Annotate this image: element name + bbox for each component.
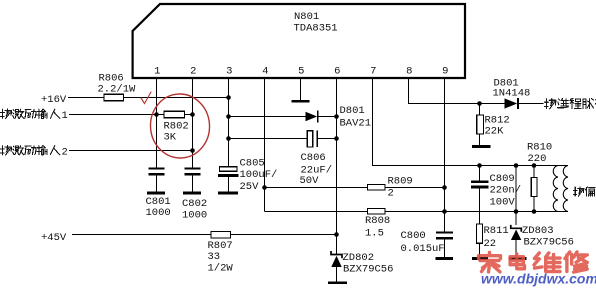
svg-text:1N4148: 1N4148 <box>493 88 531 100</box>
svg-text:220: 220 <box>528 153 547 165</box>
resistor R809 body <box>368 184 386 190</box>
svg-text:50V: 50V <box>300 175 320 187</box>
label 场偏 <box>574 187 584 196</box>
svg-text:ZD802: ZD802 <box>343 252 375 264</box>
svg-text:D801: D801 <box>340 105 365 117</box>
ground under C800 <box>436 257 454 260</box>
capacitor C809 <box>479 166 481 181</box>
ground under C805 <box>218 192 238 195</box>
svg-text:ZD803: ZD803 <box>522 225 554 237</box>
ground under C801 <box>147 192 165 195</box>
svg-text:C800: C800 <box>401 230 426 242</box>
svg-text:2: 2 <box>190 66 196 78</box>
diode D801 BAV21 <box>306 112 318 122</box>
svg-text:100uF/: 100uF/ <box>240 169 278 181</box>
wire +16V rail <box>68 97 229 99</box>
wire pin2 vertical <box>192 79 194 168</box>
ground under ZD802 <box>328 281 347 284</box>
svg-text:2: 2 <box>62 147 68 159</box>
svg-text:0.015uF: 0.015uF <box>401 243 445 255</box>
svg-text:BAV21: BAV21 <box>340 118 372 130</box>
svg-text:1: 1 <box>154 66 160 78</box>
resistor R811 <box>477 224 483 243</box>
resistor R807 body <box>211 232 231 238</box>
wire ZD803 vertical from top line <box>515 166 517 225</box>
red ellipse annotation around R802 <box>148 92 211 160</box>
wire R802 leads <box>157 114 165 116</box>
resistor R812 <box>479 104 481 116</box>
ground under C802 <box>183 192 201 195</box>
svg-text:100V: 100V <box>490 197 516 209</box>
svg-text:1/2W: 1/2W <box>208 263 234 275</box>
svg-text:7: 7 <box>370 66 376 78</box>
svg-text:www.dbjdwx.com: www.dbjdwx.com <box>481 271 596 287</box>
svg-text:C806: C806 <box>301 152 326 164</box>
capacitor C805 (electrolytic) <box>220 167 238 172</box>
svg-text:1: 1 <box>62 110 68 122</box>
svg-text:2: 2 <box>388 188 394 200</box>
ground under R812 <box>472 145 491 148</box>
svg-text:8: 8 <box>406 66 412 78</box>
svg-text:6: 6 <box>334 66 340 78</box>
svg-text:5: 5 <box>298 66 304 78</box>
wire pin5 vertical <box>300 79 302 100</box>
red tick mark near R806 <box>141 92 151 104</box>
svg-text:1000: 1000 <box>182 210 207 222</box>
svg-text:TDA8351: TDA8351 <box>294 23 338 35</box>
inductor 场偏 deflection coil <box>563 166 568 212</box>
svg-text:22K: 22K <box>485 126 505 138</box>
wire pin7 east line <box>373 165 569 167</box>
svg-text:BZX79C56: BZX79C56 <box>343 264 393 276</box>
svg-text:33: 33 <box>208 251 221 263</box>
zener diode ZD802 <box>331 251 342 258</box>
wire input1 to pin1 <box>69 114 157 116</box>
svg-text:N801: N801 <box>294 11 319 23</box>
svg-text:25V: 25V <box>240 181 260 193</box>
junction dots <box>154 112 159 117</box>
wire pin8 vertical <box>408 79 410 104</box>
svg-text:R811: R811 <box>484 225 509 237</box>
svg-text:4: 4 <box>262 66 268 78</box>
zener diode ZD803 <box>511 225 522 232</box>
wire pin8 east line <box>409 103 505 105</box>
svg-text:R810: R810 <box>527 142 552 154</box>
capacitor C802 <box>185 167 201 169</box>
ground at pin5 <box>292 100 310 103</box>
svg-text:1000: 1000 <box>146 207 171 219</box>
svg-text:C802: C802 <box>182 198 207 210</box>
ground under R811 <box>472 257 488 260</box>
node 场激励输入1 label <box>1 109 12 118</box>
svg-text:3K: 3K <box>164 132 177 144</box>
wire input2 to pin2 <box>69 150 193 152</box>
svg-text:1.5: 1.5 <box>365 228 384 240</box>
wire pin7 vertical <box>372 79 374 166</box>
resistor R810 <box>533 166 535 178</box>
wire +45V rail <box>72 234 337 236</box>
node 场逆程脉冲 label <box>545 99 556 109</box>
wire R809 line <box>265 187 368 189</box>
capacitor C801 <box>149 167 165 169</box>
svg-text:C805: C805 <box>240 158 265 170</box>
resistor R806 body <box>104 94 124 101</box>
svg-text:+45V: +45V <box>41 232 67 244</box>
watermark 家电维修 <box>479 252 588 272</box>
wire R808 / coil bottom line <box>265 211 368 213</box>
wire pin1 vertical <box>156 79 158 168</box>
ground under ZD803 <box>509 257 527 260</box>
node 场激励输入2 label <box>1 146 12 155</box>
wire pin3 vertical <box>228 79 230 167</box>
op-amp IC N801 TDA8351 body <box>133 4 465 78</box>
svg-text:R808: R808 <box>365 215 390 227</box>
svg-text:9: 9 <box>442 66 448 78</box>
wire C806 line <box>229 138 308 140</box>
capacitor C806 (electrolytic) <box>307 131 312 147</box>
svg-text:C809: C809 <box>490 173 515 185</box>
diode D801 1N4148 <box>505 98 518 108</box>
resistor R802 body <box>164 111 185 117</box>
wire BAV21 line <box>229 116 306 118</box>
svg-text:BZX79C56: BZX79C56 <box>524 237 574 249</box>
capacitor C800 <box>436 231 453 233</box>
wire pin6 vertical <box>336 79 338 255</box>
resistor R808 body <box>368 208 386 214</box>
svg-text:2.2/1W: 2.2/1W <box>98 84 137 96</box>
svg-text:22: 22 <box>484 238 497 250</box>
wire pin9 vertical <box>444 79 446 231</box>
wire pin4 vertical <box>264 79 266 212</box>
svg-text:3: 3 <box>226 66 232 78</box>
svg-text:R809: R809 <box>388 176 413 188</box>
svg-text:+16V: +16V <box>41 94 67 106</box>
